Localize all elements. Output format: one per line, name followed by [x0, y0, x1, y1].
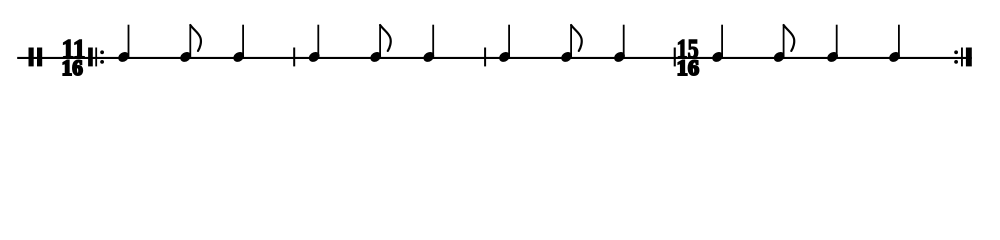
svg-text:16: 16	[677, 55, 699, 80]
svg-text:16: 16	[62, 56, 83, 80]
measure 4 quarter note 2	[825, 25, 840, 64]
measure 2 eighth note	[368, 25, 390, 64]
staff line	[17, 57, 972, 59]
measure 4 eighth note	[772, 25, 794, 64]
measure 1 quarter note 2	[231, 25, 246, 64]
time signature 15/16	[677, 35, 700, 81]
measure 2 quarter note 1	[307, 25, 322, 64]
begin repeat barline	[88, 48, 104, 67]
barline 3	[674, 48, 676, 67]
barline 1	[293, 48, 295, 67]
measure 3 quarter note 1	[497, 25, 512, 64]
heavy-heavy double barline (left)	[29, 48, 43, 67]
measure 4 quarter note 1	[710, 25, 725, 64]
end repeat barline	[954, 48, 972, 67]
measure 4 quarter note 3	[887, 25, 902, 64]
time signature 11/16	[62, 33, 86, 80]
measure 1 eighth note	[178, 25, 201, 64]
barline 2	[484, 48, 486, 67]
measure 3 eighth note	[559, 25, 581, 64]
measure 2 quarter note 2	[422, 25, 437, 64]
measure 3 quarter note 2	[612, 25, 627, 64]
measure 1 quarter note 1	[116, 25, 131, 64]
